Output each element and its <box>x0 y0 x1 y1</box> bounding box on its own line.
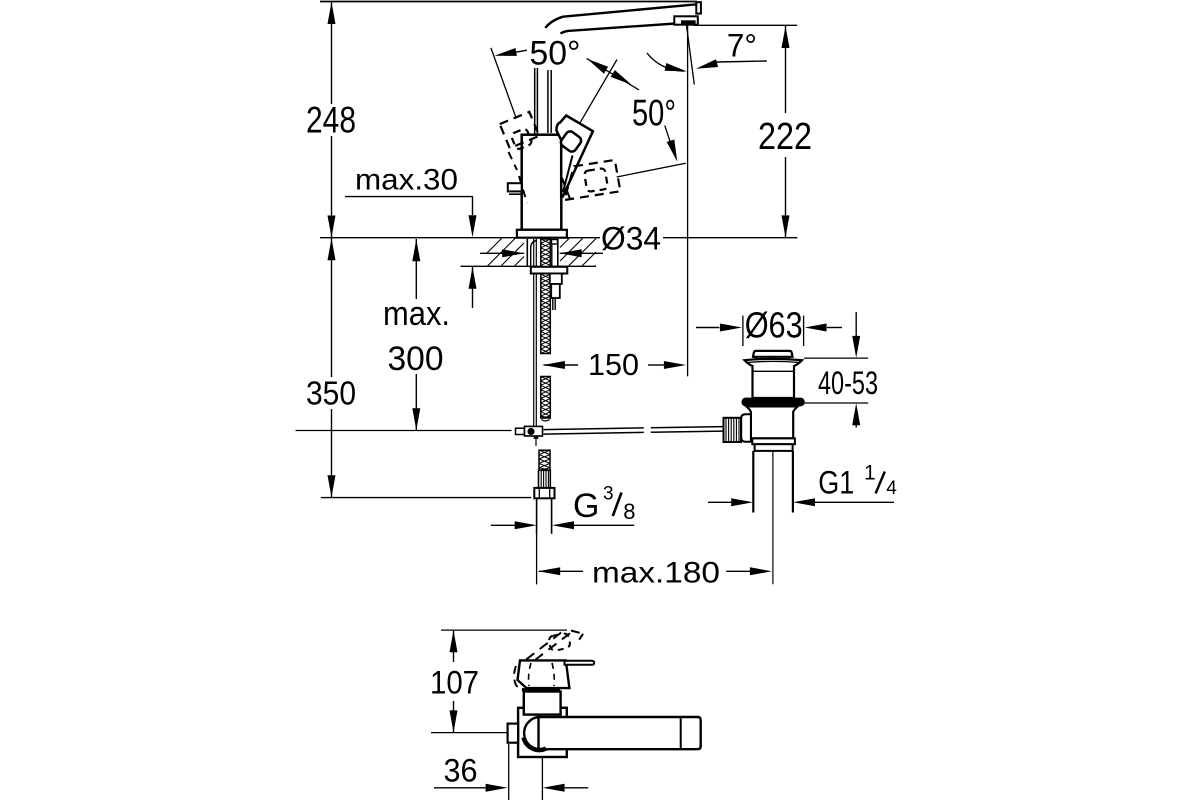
svg-text:36: 36 <box>444 753 478 789</box>
dimension G3/8 <box>491 524 515 526</box>
handle dashed down wedge lines <box>562 178 572 204</box>
riser pipe right <box>547 70 549 133</box>
spout end cap <box>696 2 701 13</box>
dimension 36 <box>434 787 486 789</box>
handle lever dashed (down 50deg position) <box>564 160 620 200</box>
107 top extension line <box>441 629 567 631</box>
plan: spout round end <box>524 717 538 749</box>
hose end curve <box>542 420 550 422</box>
extension line from aerator (vertical) <box>687 26 689 377</box>
dimension 150 <box>543 361 565 369</box>
plan: handle body <box>518 660 570 688</box>
rod end cap <box>516 428 525 434</box>
faucet body <box>522 135 562 230</box>
svg-text:50°: 50° <box>530 35 581 73</box>
svg-text:G: G <box>573 487 599 525</box>
svg-text:max.: max. <box>383 295 450 333</box>
7deg tilted line <box>687 26 695 85</box>
dimension max.30: underline and drop line to deck <box>345 196 473 198</box>
escutcheon flange <box>517 230 567 238</box>
svg-text:222: 222 <box>758 116 812 158</box>
svg-text:8: 8 <box>623 499 635 524</box>
horizontal rod right segment <box>651 427 723 428</box>
50deg right: label leader arrow <box>665 126 674 153</box>
dimension 40-53 <box>855 312 857 336</box>
extension line at 350 bottom (hose nut level) <box>321 497 532 499</box>
reference line at aerator level (222 top) <box>694 24 797 26</box>
svg-text:1: 1 <box>864 461 876 484</box>
spout upper edge <box>545 4 696 28</box>
horizontal rod left segment <box>544 428 644 430</box>
dimension max.300: vertical line with arrows <box>415 239 417 299</box>
svg-text:3: 3 <box>603 484 614 505</box>
40-53 extension lines <box>804 357 868 359</box>
50deg right: chord arrows <box>587 59 608 74</box>
supply pipe stub <box>536 498 538 534</box>
drain flange joint line <box>753 370 795 372</box>
dimension G1 1/4 <box>708 501 731 503</box>
drain centerline <box>772 404 774 584</box>
braided hose middle segment <box>541 377 551 419</box>
7deg dimension arc with arrow <box>647 53 684 71</box>
plan: dashed lifted handle hole <box>548 633 571 652</box>
36 extension lines <box>508 744 510 800</box>
plan: dashed lifted handle top corner <box>571 631 583 634</box>
svg-text:Ø34: Ø34 <box>601 221 661 257</box>
mounting nut under deck <box>531 267 568 274</box>
50deg swing line to extension <box>617 163 686 177</box>
deck hatching <box>487 238 503 254</box>
svg-text:40-53: 40-53 <box>818 365 878 401</box>
knurled adjuster nut <box>724 418 742 442</box>
dimension Ø63 <box>696 327 719 329</box>
drain plug knob <box>753 351 793 357</box>
drain flange <box>745 359 803 398</box>
plan: pop-up rod guide block <box>508 724 518 743</box>
drain locknut <box>752 438 795 444</box>
drain tailpipe <box>752 451 754 513</box>
plan: spout tube <box>539 717 701 749</box>
deck top line (right of label) <box>663 237 797 239</box>
svg-text:50°: 50° <box>632 93 676 134</box>
Ø63 extension lines <box>742 316 744 346</box>
plan: aerator division line <box>680 717 682 749</box>
pull rod vertical <box>533 239 535 426</box>
pop-up linkage piece <box>550 274 562 285</box>
50deg right: chord line <box>587 58 639 90</box>
handle lever dashed (left 50deg position) <box>500 112 540 148</box>
svg-text:max.180: max.180 <box>592 557 720 590</box>
dimension Ø34: arrows at hole edges <box>480 252 524 254</box>
drain flange rim line <box>747 361 801 362</box>
plan: handle left dashed curve (swung position) <box>514 666 524 689</box>
drain body <box>747 406 798 438</box>
svg-text:248: 248 <box>306 100 356 141</box>
shank wall right <box>557 239 559 266</box>
drain ball housing <box>741 414 751 441</box>
braided hose upper segment <box>541 239 551 354</box>
107 bottom extension line <box>431 732 510 734</box>
dimension 248: vertical line with arrows <box>331 2 333 104</box>
7deg label leader with arrow <box>717 61 767 62</box>
dimension 222: vertical with arrows <box>785 26 787 113</box>
spout lower edge <box>561 23 690 34</box>
drain rubber seal <box>742 398 805 407</box>
50deg right: handle axis line <box>580 60 617 123</box>
plan: lever bar <box>565 661 595 665</box>
svg-text:300: 300 <box>388 340 444 378</box>
aerator housing <box>674 16 698 24</box>
plan: cartridge housing <box>524 692 561 715</box>
svg-text:G1: G1 <box>818 465 854 501</box>
svg-text:107: 107 <box>430 665 479 701</box>
plan: handle inner dashed lines <box>529 663 531 686</box>
handle lever (solid, open 50deg) <box>556 116 593 197</box>
plan: dashed lifted handle outline <box>526 630 564 659</box>
deck bottom line <box>461 265 597 267</box>
svg-text:max.30: max.30 <box>355 164 458 197</box>
dimension 107 <box>450 630 458 652</box>
handle dashed left wedge lines <box>509 152 518 170</box>
dimension line: top reference for 248 <box>320 1 697 3</box>
plan: escutcheon <box>518 708 567 757</box>
50deg left: arrow on line <box>495 48 517 56</box>
shank wall left <box>526 239 528 266</box>
svg-text:4: 4 <box>886 478 897 499</box>
rod clamp block <box>525 426 543 436</box>
dimension 350: vertical line with arrows <box>331 238 333 377</box>
braided hose lower segment <box>539 450 550 470</box>
plan: handle base black band <box>522 688 560 691</box>
svg-text:Ø63: Ø63 <box>745 305 803 346</box>
svg-text:350: 350 <box>306 375 356 412</box>
svg-text:7°: 7° <box>727 28 757 64</box>
reference line to rod (max300 bottom) <box>296 430 512 432</box>
handle wedge inner line <box>563 156 573 193</box>
plan: spout round end heavy bottom arc <box>524 738 546 751</box>
svg-text:150: 150 <box>588 347 639 382</box>
deck top line (left of hole) <box>320 237 600 239</box>
handle hole dashed (down position) <box>584 168 608 192</box>
extension line below pipe <box>536 534 538 585</box>
50deg left: tilted handle axis line <box>491 48 516 118</box>
handle hole (rounded square) <box>559 130 583 154</box>
dimension max.180 <box>538 567 560 575</box>
hose compression fitting <box>539 470 551 488</box>
riser pipe left <box>534 68 536 134</box>
hose nut G3/8 <box>534 488 554 498</box>
pop-up rod knob <box>508 183 522 191</box>
